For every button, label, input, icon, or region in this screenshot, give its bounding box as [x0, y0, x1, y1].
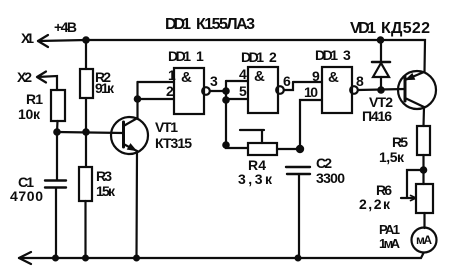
svg-text:К155ЛА3: К155ЛА3 — [196, 16, 255, 33]
svg-text:91к: 91к — [95, 80, 115, 96]
logic gate DD1.1 — [174, 68, 204, 114]
logic gate DD1.2 — [248, 67, 278, 113]
resistor R1 — [51, 90, 65, 121]
wire R4 right — [277, 148, 300, 150]
wire pin5 — [226, 98, 248, 100]
meter PA1 — [412, 228, 437, 253]
svg-text:15к: 15к — [96, 183, 116, 199]
diode VD1 — [380, 40, 382, 63]
svg-text:R5: R5 — [392, 134, 408, 150]
svg-text:6: 6 — [283, 73, 291, 89]
resistor R5 — [417, 126, 430, 155]
wire R2 top — [85, 40, 87, 69]
svg-text:3: 3 — [343, 47, 351, 63]
svg-text:&: & — [254, 68, 265, 85]
junction rail-R3 — [82, 255, 89, 262]
svg-text:3300: 3300 — [316, 170, 345, 186]
wire pin2 — [138, 98, 175, 100]
svg-text:3: 3 — [210, 73, 218, 89]
junction R2-R3-base wire — [82, 128, 90, 136]
wire R6 to meter — [423, 213, 425, 228]
junction R5-R6 wiper — [420, 166, 428, 174]
wire bottom common rail — [19, 253, 424, 258]
svg-text:4: 4 — [239, 66, 247, 82]
svg-text:1мА: 1мА — [379, 236, 401, 251]
wire pin3 — [210, 90, 226, 92]
wire base VT1 — [57, 132, 124, 133]
svg-text:R1: R1 — [26, 91, 43, 107]
wire R3 to rail — [84, 201, 86, 258]
svg-text:5: 5 — [239, 83, 247, 99]
bottom rail arrow — [19, 252, 31, 264]
svg-text:DD1: DD1 — [168, 48, 191, 64]
svg-text:П416: П416 — [362, 108, 392, 124]
junction VT1 collector-pin2 — [134, 95, 142, 103]
svg-text:9: 9 — [312, 68, 320, 84]
capacitor C2 — [286, 167, 310, 174]
svg-text:8: 8 — [356, 73, 364, 89]
svg-text:DD1: DD1 — [315, 47, 338, 63]
wire pin8 to VT2 base — [358, 89, 405, 90]
resistor R3 — [79, 167, 92, 201]
junction pin3-bus — [222, 87, 230, 95]
wire top +4V rail — [38, 40, 425, 72]
wire C1 to rail — [55, 188, 57, 258]
svg-text:10к: 10к — [18, 106, 41, 122]
resistor R6 trimmer rheostat — [416, 184, 433, 213]
resistor R4 trimmer — [248, 143, 277, 155]
node X1 arrow — [38, 35, 48, 47]
svg-text:КД522: КД522 — [381, 20, 430, 37]
wire node A bus (pin4/pin3/pin5 to R4) — [226, 81, 248, 148]
node DD1.2 output bubble — [276, 86, 284, 94]
capacitor C1 — [45, 181, 66, 188]
wire pin10 — [300, 100, 322, 149]
svg-text:X1: X1 — [21, 30, 34, 46]
wire VT1 collector up — [136, 82, 138, 118]
svg-text:+4В: +4В — [54, 19, 77, 35]
wire node to R3 — [85, 132, 87, 167]
resistor R2 — [80, 69, 93, 98]
svg-text:10: 10 — [304, 84, 318, 100]
wire C1 branch — [56, 132, 58, 180]
svg-text:&: & — [328, 69, 339, 86]
node X2 arrow and wire — [37, 72, 57, 91]
wire VT2 collector down — [422, 107, 425, 126]
svg-text:VD1: VD1 — [350, 20, 376, 37]
svg-text:3,3к: 3,3к — [238, 171, 273, 187]
wire pin6 — [284, 82, 293, 90]
node DD1.1 output bubble — [202, 87, 210, 95]
transistor VT2 — [398, 71, 436, 109]
svg-text:1: 1 — [168, 67, 176, 83]
svg-text:DD1: DD1 — [241, 49, 264, 65]
svg-text:VT1: VT1 — [155, 119, 178, 135]
wire pin9 — [293, 81, 322, 83]
junction rail-VD1 — [377, 36, 385, 44]
wire pin4 — [226, 80, 248, 82]
svg-text:2: 2 — [269, 49, 277, 65]
transistor VT1 — [111, 117, 148, 154]
junction rail-C1 — [52, 255, 59, 262]
junction rail-VT1 emitter — [133, 255, 140, 262]
svg-text:мА: мА — [416, 233, 432, 247]
junction pin8-VD1-VT2 base — [377, 86, 385, 94]
wire pin1 — [138, 81, 175, 83]
wire R2 bottom to node — [85, 98, 87, 132]
svg-text:1: 1 — [196, 48, 204, 64]
junction rail-R2 — [82, 36, 90, 44]
node DD1.3 output bubble — [350, 86, 358, 94]
svg-text:DD1: DD1 — [165, 16, 191, 33]
svg-text:4700: 4700 — [10, 188, 43, 204]
junction bus-R4 — [222, 141, 230, 149]
junction R4-C2-pin10 — [296, 145, 304, 153]
wire VT1 emitter down — [135, 151, 138, 258]
wire R6 wiper — [401, 170, 424, 198]
svg-text:R3: R3 — [96, 168, 112, 184]
junction R1-C1-base wire — [53, 128, 61, 136]
svg-text:РА1: РА1 — [379, 222, 400, 237]
wire R1 to node — [56, 121, 59, 132]
logic gate DD1.3 — [322, 67, 352, 113]
junction pin5-bus — [222, 96, 230, 104]
svg-text:2,2к: 2,2к — [359, 196, 391, 212]
svg-text:1,5к: 1,5к — [379, 149, 405, 165]
svg-text:2: 2 — [166, 83, 174, 99]
junction rail-C2 — [295, 255, 302, 262]
svg-text:&: & — [181, 69, 192, 86]
svg-text:КТ315: КТ315 — [155, 135, 192, 151]
wire C2 to rail — [298, 174, 300, 258]
wire R5 to R6 — [422, 155, 424, 184]
svg-text:X2: X2 — [17, 69, 32, 85]
svg-text:C2: C2 — [316, 155, 332, 171]
